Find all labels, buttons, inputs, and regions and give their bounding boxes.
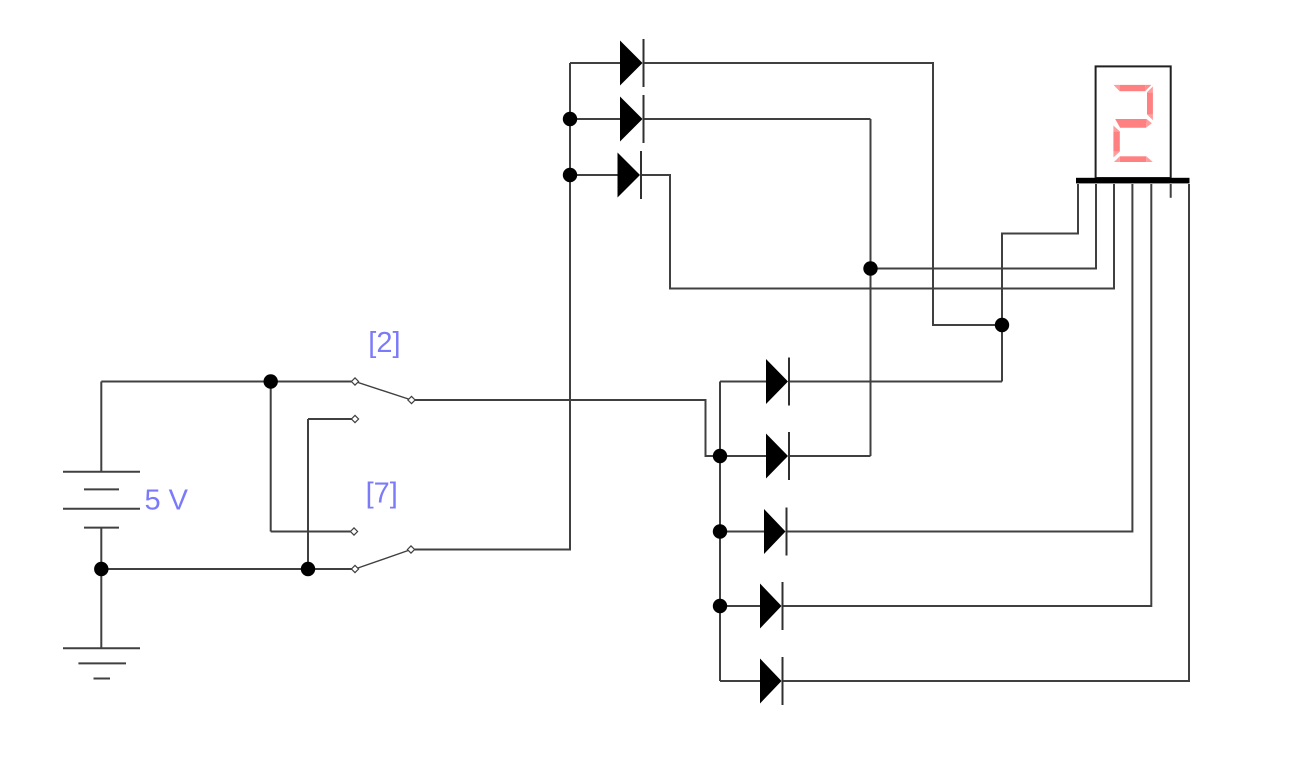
junction node B [863, 261, 877, 275]
wire node B to display pin2 [871, 184, 1097, 269]
junction mid rail row C [713, 524, 727, 538]
junction mid rail row B [713, 449, 727, 463]
wire row C [720, 531, 764, 533]
diode D2 top row2 [620, 95, 644, 143]
junction left rail row2 [563, 112, 577, 126]
diode D7 row D [760, 582, 783, 630]
junction mid rail row D [713, 599, 727, 613]
wire SW1 lower throw stub [308, 418, 355, 420]
wire down to bottom rail [307, 419, 309, 569]
wire mid left rail [719, 382, 721, 682]
svg-text:[2]: [2] [368, 327, 400, 359]
wire bottom rail to switch SW2 [101, 568, 355, 570]
wire SW1 common right [412, 400, 721, 456]
wire row A leads [720, 381, 766, 383]
wire vertical x870 [870, 119, 872, 456]
wire node A down [270, 382, 272, 532]
display U1 base bar [1076, 178, 1190, 184]
switch SW2 post common [407, 546, 414, 553]
junction battery bottom [94, 562, 108, 576]
wire SW2 common to left rail [411, 63, 570, 550]
display U1 box [1096, 66, 1171, 178]
wire top row3 left lead [570, 174, 618, 176]
wire top row3 right [641, 175, 1114, 289]
switch SW1 post throw1 [351, 378, 358, 385]
wire row E [720, 680, 760, 682]
wire battery+ to node A [101, 381, 270, 383]
switch SW2 post throw2 [351, 565, 358, 572]
switch SW2 blade [355, 550, 411, 570]
switch SW1 blade [355, 382, 412, 401]
junction node C [995, 318, 1009, 332]
switch SW1 post common [408, 396, 415, 403]
junction left rail row3 [563, 168, 577, 182]
diode D5 row B [766, 432, 789, 480]
wire row B leads [720, 455, 766, 457]
display segment g [1115, 119, 1152, 128]
display segment e [1113, 126, 1119, 158]
wire row D [720, 605, 760, 607]
junction bottom rail [301, 562, 315, 576]
diode D6 row C [764, 508, 787, 556]
switch SW1 post throw2 [351, 415, 358, 422]
display segment b [1147, 86, 1153, 120]
svg-text:5 V: 5 V [145, 484, 189, 516]
ground [63, 648, 140, 678]
junction node A [264, 374, 278, 388]
wire top row1 right to pin1 path [644, 63, 1003, 325]
wire top row2 left lead [570, 118, 620, 120]
diode D8 row E [760, 657, 783, 705]
diode D3 top row3 [618, 151, 642, 199]
wire top row2 right [644, 118, 871, 120]
wire to SW2 top throw [271, 531, 354, 533]
switch SW2 post throw1 [350, 528, 357, 535]
wire top row1 left lead [570, 62, 620, 64]
battery V1 plates [63, 472, 140, 528]
wire display pin1 step [1002, 184, 1078, 382]
display decimal pin stub [1170, 184, 1172, 198]
wire battery top lead [100, 382, 102, 472]
wire node A to SW1 top throw [271, 381, 355, 383]
display segment d [1114, 156, 1153, 162]
diode D1 top row1 [620, 39, 644, 87]
svg-text:[7]: [7] [366, 478, 398, 510]
diode D4 row A [766, 358, 789, 406]
wire battery bottom lead [100, 528, 102, 649]
display segment a [1114, 85, 1152, 91]
